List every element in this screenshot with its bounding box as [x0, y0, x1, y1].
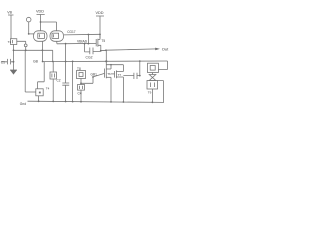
svg-text:GB: GB [33, 59, 39, 63]
svg-text:VDD: VDD [36, 10, 44, 14]
node bus j3 [65, 61, 67, 63]
node GB1 junction [92, 76, 94, 78]
arrowhead Out [155, 48, 160, 51]
capacitor C1 input [2, 59, 14, 65]
node T1 source junction [13, 49, 15, 51]
wire T5 drain [99, 34, 101, 39]
node T5 source junction [100, 50, 102, 52]
diode X1 [149, 73, 156, 81]
wire source to out node [101, 49, 106, 51]
svg-text:T7: T7 [118, 73, 122, 77]
rail junction dots [38, 100, 40, 102]
bus wire GB [43, 60, 168, 63]
node bus j9 [139, 60, 141, 62]
wire node E down [87, 35, 89, 44]
capacitor C4 box [78, 85, 85, 102]
node bus j1 [42, 61, 44, 63]
node VBIAS drop junction [65, 43, 67, 45]
transistor T6 [105, 65, 112, 79]
svg-text:T9: T9 [148, 91, 152, 95]
svg-text:T1: T1 [8, 40, 12, 44]
wire pin down [25, 47, 27, 51]
node Out junction [105, 49, 107, 51]
current source I1 [26, 17, 31, 34]
node T8 junction [80, 82, 82, 84]
svg-text:Out: Out [162, 47, 169, 52]
transistor T8 branch [77, 71, 86, 79]
wire T8 node to GB1 node [81, 77, 93, 83]
svg-text:C1: C1 [1, 60, 5, 64]
svg-text:T6: T6 [107, 72, 111, 76]
node E junction [88, 34, 90, 36]
svg-text:CG2: CG2 [86, 56, 93, 60]
wire out node down with jog [106, 50, 123, 71]
supply VDD terminal right [96, 16, 104, 38]
wire box R2 tap to rail [158, 81, 164, 103]
svg-text:T8: T8 [77, 67, 81, 71]
bus branch jog [38, 62, 45, 89]
svg-text:C4: C4 [78, 92, 82, 96]
node T5 drain junction [99, 34, 101, 36]
svg-text:Gnd: Gnd [20, 102, 26, 106]
wire VDD split [41, 22, 57, 31]
svg-text:C2: C2 [57, 79, 61, 83]
node bus j2 [52, 61, 54, 63]
wire bus right corner into box R1 [158, 61, 167, 70]
svg-text:VDD: VDD [96, 11, 104, 15]
transistor T5 [96, 39, 101, 47]
wire node A to mirror [29, 33, 35, 35]
wire C3 node to bus [139, 61, 141, 76]
capacitor CG2 [85, 44, 101, 55]
bottom left gate wire [25, 50, 36, 92]
wire mirror output row35 [64, 33, 100, 36]
node VDD split junction [40, 21, 42, 23]
node input junction [13, 61, 15, 63]
wire VBIAS drop with capacitor C2 [62, 44, 69, 102]
ground rail [28, 101, 165, 102]
ground input [10, 70, 17, 75]
node C3 junction [139, 75, 141, 77]
wire T1 gate right [17, 41, 26, 44]
box R1 [148, 63, 159, 72]
transistor T1 [11, 39, 17, 45]
transistor T7 [111, 70, 123, 78]
svg-text:VB: VB [7, 11, 12, 15]
node gate drop junction [25, 49, 27, 51]
supply VB terminal [8, 15, 14, 39]
wire node row50 [14, 50, 53, 61]
node A junction dot [28, 33, 30, 35]
node VBIAS E junction [88, 43, 90, 45]
wire T4 source [38, 96, 40, 102]
wire T8 to C4 [80, 79, 82, 85]
wire T7 source [122, 77, 124, 102]
wire mirror left drain down [41, 42, 43, 62]
crystal X2 branch [50, 62, 57, 102]
svg-text:T5: T5 [101, 39, 105, 43]
wire T1 source down [13, 45, 15, 71]
svg-text:VBIAS: VBIAS [77, 39, 88, 43]
node bus j4 [72, 61, 74, 63]
wire GB1 to T6 gate [93, 73, 105, 77]
box R2 [147, 81, 158, 103]
transistor T4 [36, 89, 43, 96]
svg-text:CG17: CG17 [67, 30, 76, 34]
wire T6 source [110, 77, 112, 102]
wire VBIAS [57, 42, 96, 44]
node VBIAS cap junction [84, 43, 86, 45]
supply VDD terminal left [37, 15, 45, 23]
wire T5 source [100, 45, 102, 50]
wire branch to rail [72, 61, 74, 101]
capacitor C3 [123, 73, 139, 79]
svg-text:T4: T4 [46, 87, 50, 91]
wire Out [106, 49, 156, 50]
pin circle D [24, 44, 27, 47]
wire mirror right lead to VBIAS [56, 42, 58, 44]
node mirror left junction [42, 49, 44, 51]
node bus j6 [105, 60, 107, 62]
transistor pair T2 T3 mirror [34, 31, 64, 42]
node jog junction [110, 64, 112, 66]
